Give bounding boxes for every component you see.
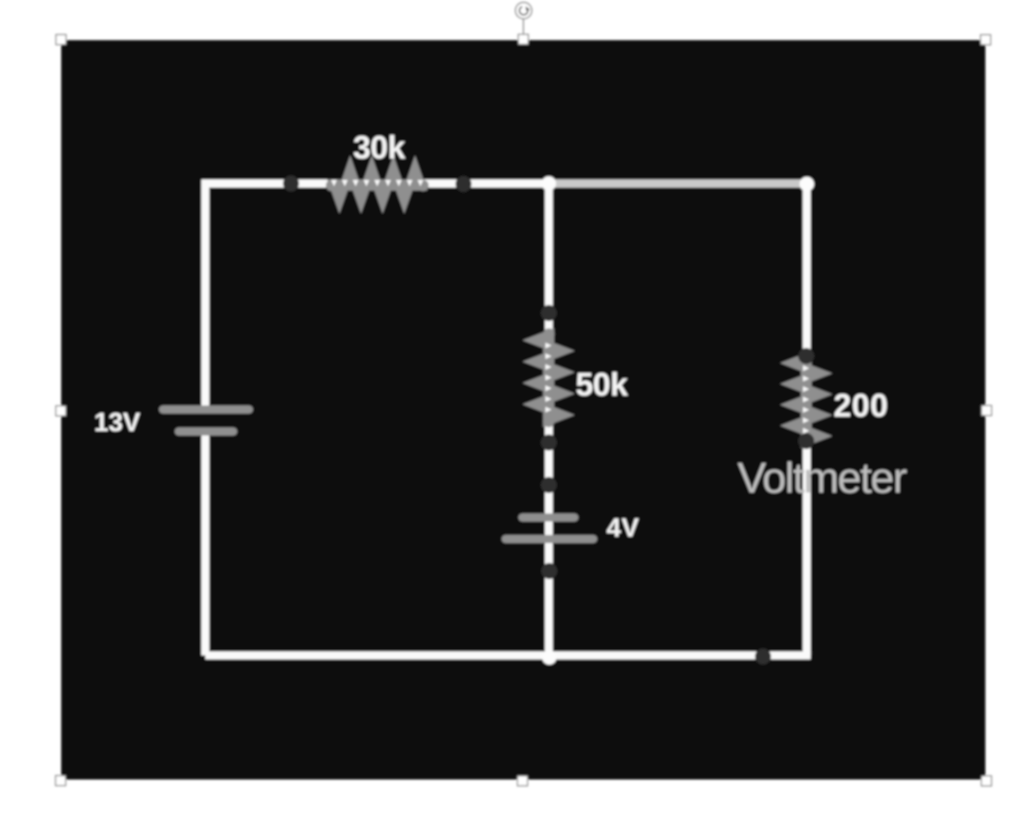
svg-text:200: 200 bbox=[834, 388, 889, 424]
svg-text:13V: 13V bbox=[94, 407, 141, 437]
svg-text:Voltmeter: Voltmeter bbox=[738, 455, 907, 503]
svg-text:30k: 30k bbox=[353, 130, 406, 166]
svg-text:4V: 4V bbox=[607, 513, 640, 543]
svg-text:50k: 50k bbox=[576, 367, 629, 403]
